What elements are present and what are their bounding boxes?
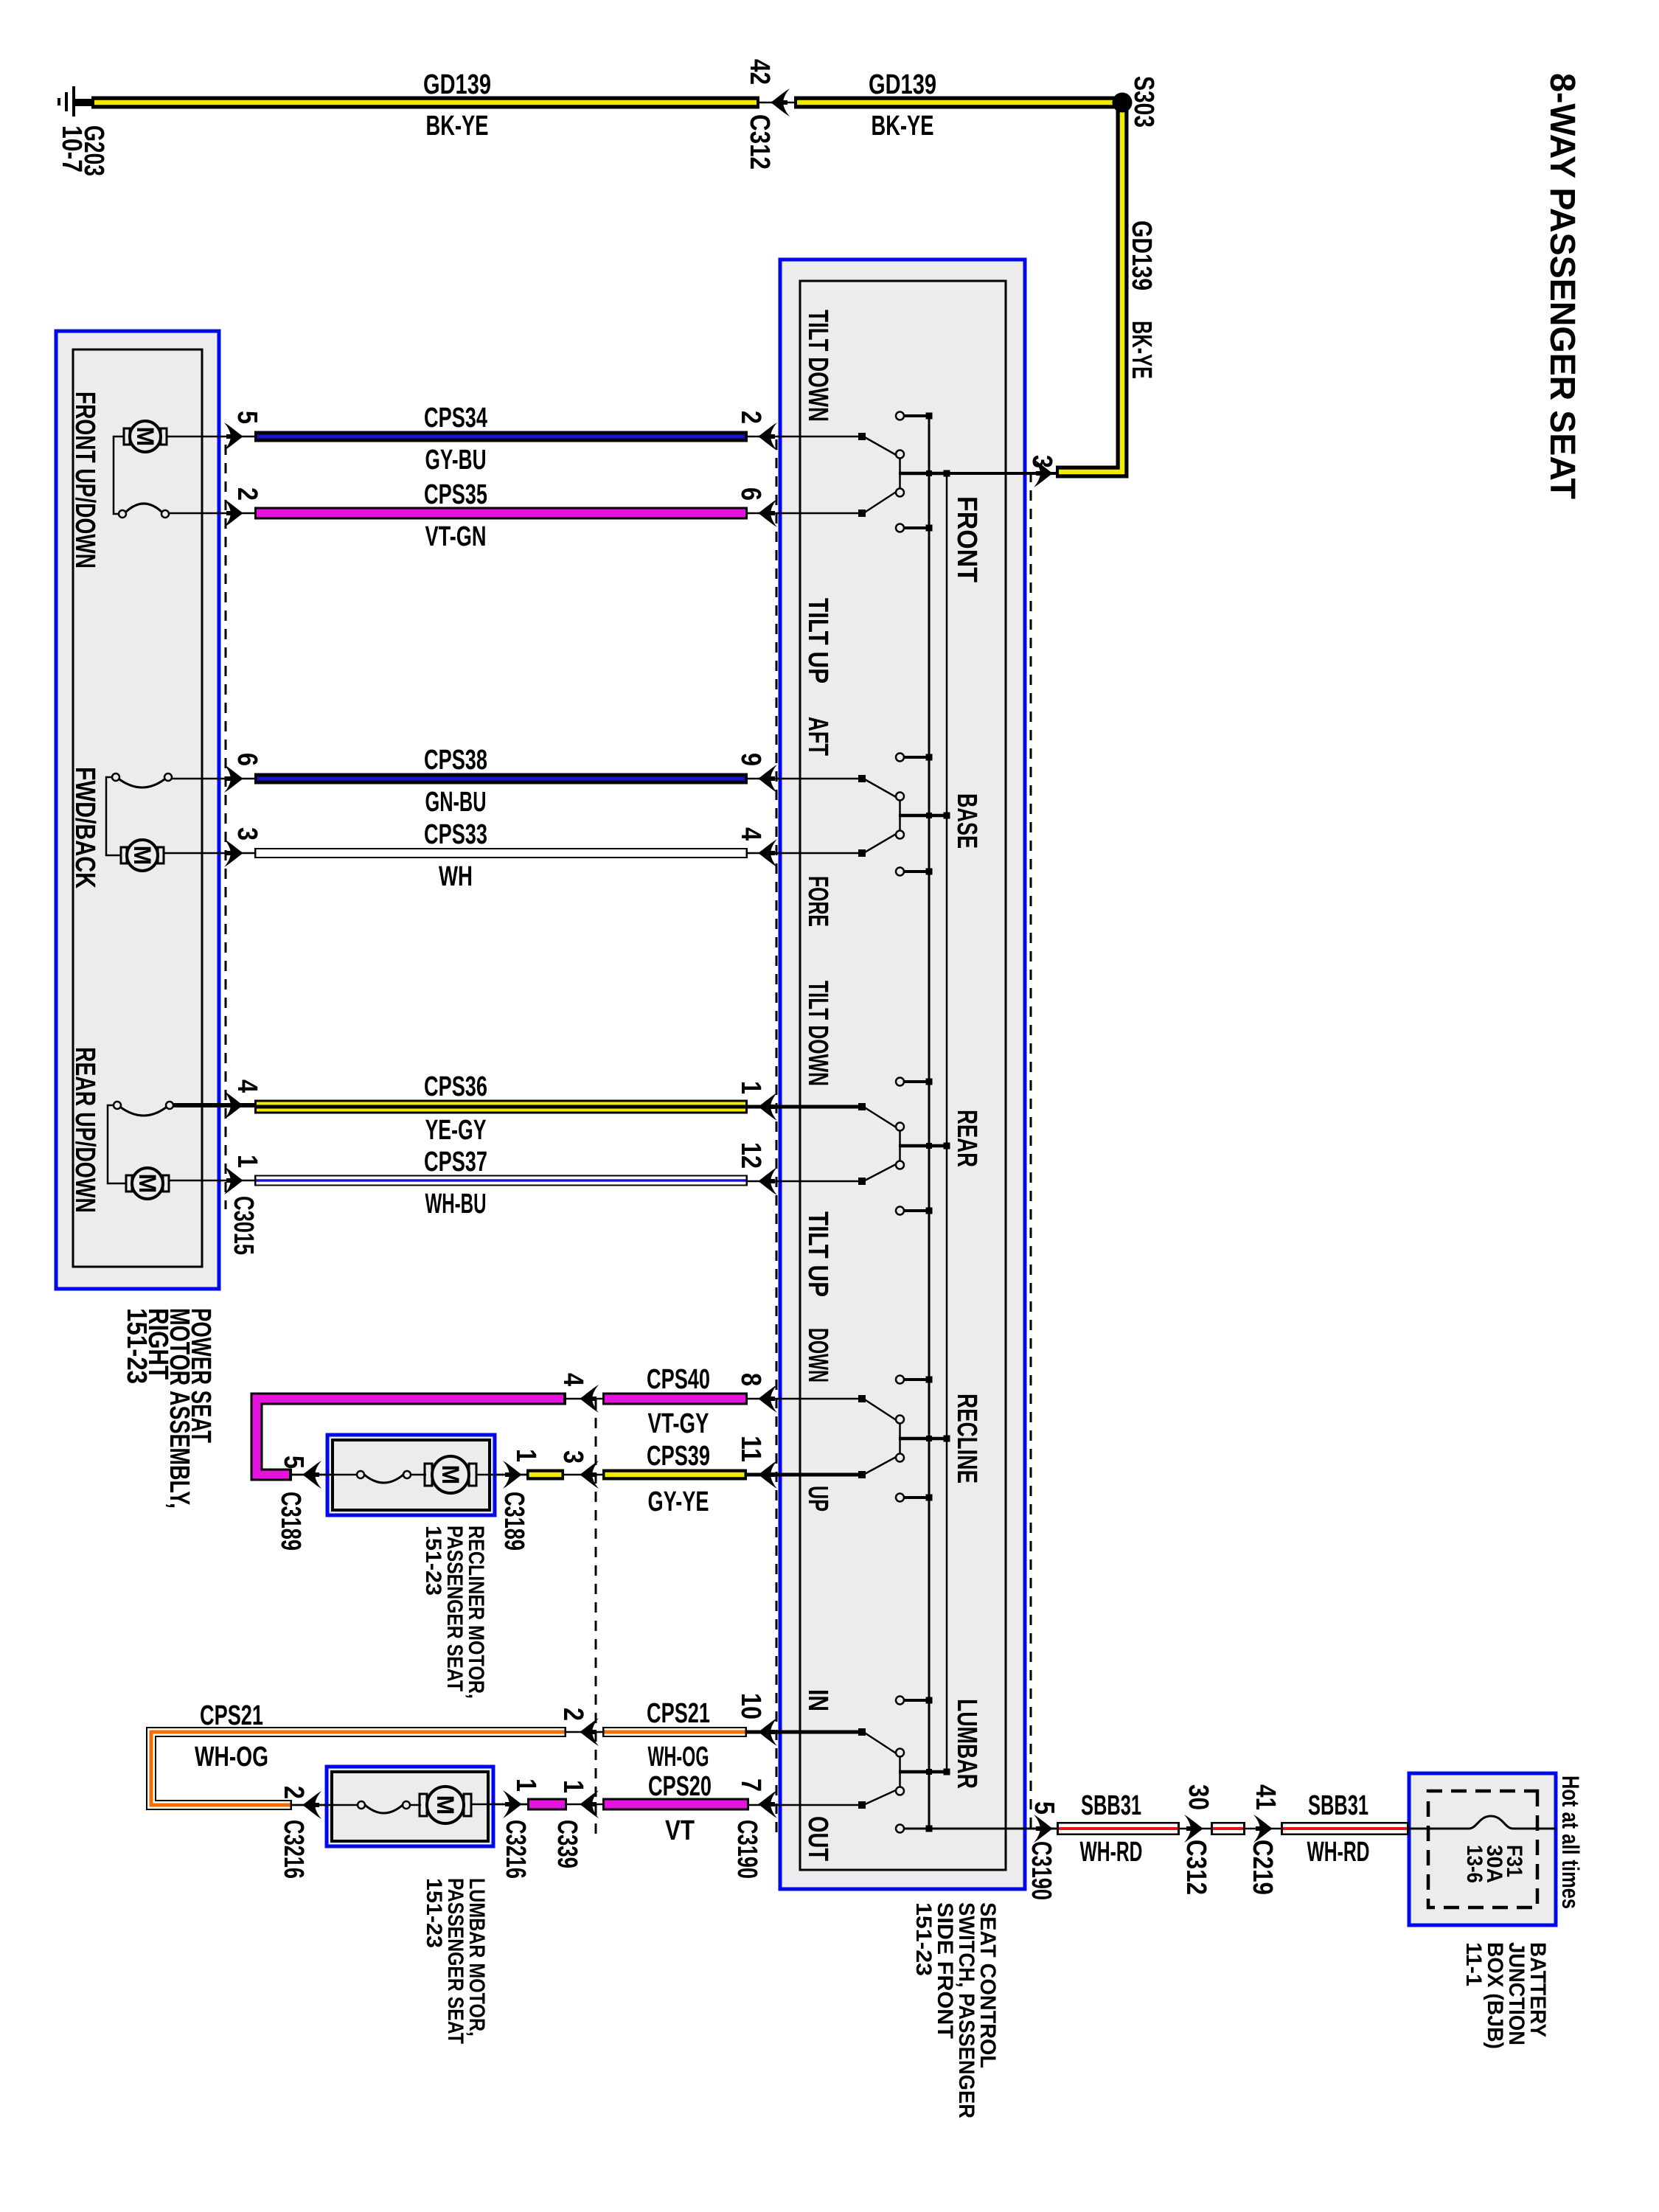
motor assembly connector C3015 pin 4 arrow bbox=[224, 1091, 243, 1119]
svg-text:C3190: C3190 bbox=[731, 1820, 762, 1879]
svg-text:2: 2 bbox=[557, 1708, 588, 1721]
connector C3190 dashed line left side bbox=[776, 439, 778, 1835]
label SWITCH, PASSENGER bbox=[954, 1902, 978, 2118]
svg-text:M: M bbox=[129, 846, 156, 866]
label 151-23 motor assembly bbox=[121, 1308, 152, 1384]
svg-text:CPS35: CPS35 bbox=[424, 479, 487, 510]
wire CPS21 WH-OG upper segment bbox=[602, 1727, 747, 1737]
label RIGHT bbox=[142, 1308, 173, 1380]
svg-text:1: 1 bbox=[510, 1449, 541, 1462]
svg-text:SEAT CONTROL: SEAT CONTROL bbox=[975, 1902, 1000, 2068]
fuse box dashed border bbox=[1428, 1791, 1537, 1907]
svg-text:SWITCH, PASSENGER: SWITCH, PASSENGER bbox=[954, 1902, 978, 2118]
label GN-BU bbox=[425, 787, 487, 818]
label C312 lower bbox=[1180, 1840, 1211, 1895]
label WH-OG lower bbox=[195, 1742, 268, 1773]
fuse F31 bbox=[1409, 1816, 1556, 1829]
label TILT DOWN pin1 bbox=[802, 981, 833, 1086]
power seat motor assembly outer box bbox=[56, 331, 219, 1289]
svg-text:TILT UP: TILT UP bbox=[802, 598, 833, 684]
svg-text:YE-GY: YE-GY bbox=[425, 1115, 487, 1146]
svg-text:12: 12 bbox=[735, 1142, 766, 1169]
svg-text:1: 1 bbox=[232, 1155, 262, 1168]
seat control switch inner box bbox=[800, 281, 1006, 1870]
label CPS20 bbox=[648, 1771, 712, 1802]
wire SBB31 WH-RD upper segment bbox=[1281, 1822, 1409, 1835]
fwd/back motor M bbox=[121, 840, 254, 871]
label C3189 pin 5 bbox=[278, 1455, 309, 1469]
motor assembly connector C3015 pin 6 arrow bbox=[224, 765, 243, 793]
label BK-YE at top wire bbox=[1126, 321, 1157, 379]
switch section BASE bbox=[745, 754, 950, 876]
svg-text:CPS21: CPS21 bbox=[200, 1700, 263, 1731]
label C3189 pin 1 bbox=[510, 1449, 541, 1462]
svg-text:TILT DOWN: TILT DOWN bbox=[802, 310, 833, 422]
lumbar motor M bbox=[420, 1787, 527, 1823]
title 8-WAY PASSENGER SEAT bbox=[1543, 73, 1582, 499]
label 42 bbox=[744, 59, 775, 85]
recliner connector C3189 pin 1 arrow bbox=[479, 1461, 526, 1489]
svg-text:11-1: 11-1 bbox=[1461, 1942, 1486, 1986]
label S303 bbox=[1128, 76, 1159, 128]
svg-text:10-7: 10-7 bbox=[56, 125, 87, 173]
label C339 pin 4 bbox=[557, 1373, 588, 1386]
svg-text:5: 5 bbox=[278, 1455, 309, 1469]
svg-text:DOWN: DOWN bbox=[802, 1328, 833, 1382]
svg-text:BK-YE: BK-YE bbox=[426, 111, 489, 142]
label pin 8 bbox=[735, 1373, 766, 1386]
label GD139 on trunk upper bbox=[869, 69, 936, 100]
wire GD139 BK-YE trunk lower segment to ground bbox=[91, 97, 759, 109]
label OUT pin7 bbox=[802, 1816, 833, 1861]
label GD139 on trunk lower bbox=[423, 69, 491, 100]
svg-text:BASE: BASE bbox=[951, 793, 982, 849]
label LUMBAR MOTOR, bbox=[465, 1878, 489, 2037]
label SBB31 upper bbox=[1308, 1790, 1368, 1821]
lumbar connector C3216 pin 1 arrow bbox=[479, 1790, 527, 1818]
svg-text:13-6: 13-6 bbox=[1462, 1845, 1486, 1883]
label pin 1 bbox=[735, 1081, 766, 1094]
wire CPS38 GN-BU bbox=[254, 773, 748, 785]
label C339 pin 2 bbox=[557, 1708, 588, 1721]
label SIDE FRONT bbox=[933, 1902, 957, 2039]
label C339 bbox=[552, 1820, 582, 1868]
label WH-RD upper bbox=[1307, 1837, 1370, 1868]
svg-text:M: M bbox=[437, 1465, 464, 1485]
switch connector C3190 pin 6 arrow bbox=[758, 499, 777, 527]
svg-text:C3216: C3216 bbox=[278, 1820, 309, 1879]
svg-text:TILT DOWN: TILT DOWN bbox=[802, 981, 833, 1086]
label PASSENGER SEAT lumbar bbox=[443, 1878, 467, 2044]
label pin 10 bbox=[735, 1693, 766, 1719]
label WH bbox=[439, 861, 473, 892]
svg-text:FRONT: FRONT bbox=[951, 496, 982, 582]
label VT bbox=[665, 1815, 695, 1846]
svg-text:M: M bbox=[432, 1795, 459, 1815]
svg-text:JUNCTION: JUNCTION bbox=[1504, 1942, 1528, 2045]
label WH-BU bbox=[425, 1189, 487, 1220]
label VT-GN bbox=[425, 521, 487, 552]
label pin 9 bbox=[735, 753, 766, 766]
label WH-RD lower bbox=[1080, 1837, 1143, 1868]
label GY-BU bbox=[425, 445, 487, 476]
label POWER SEAT bbox=[185, 1308, 216, 1443]
label CPS38 bbox=[424, 745, 487, 776]
switch section REAR bbox=[745, 1078, 950, 1215]
label CPS34 bbox=[424, 403, 487, 434]
svg-text:AFT: AFT bbox=[802, 717, 833, 756]
label TILT UP pin12 bbox=[802, 1211, 833, 1297]
fwd/back reversing arc bbox=[112, 773, 254, 787]
label FWD/BACK bbox=[69, 767, 100, 888]
lumbar connector C3216 pin 2 arrow bbox=[292, 1791, 327, 1819]
switch section FRONT bbox=[745, 412, 950, 532]
svg-text:BK-YE: BK-YE bbox=[1126, 321, 1157, 379]
label C3190 right bbox=[1026, 1841, 1057, 1900]
label TILT DOWN pin2 bbox=[802, 310, 833, 422]
svg-text:UP: UP bbox=[802, 1486, 833, 1512]
svg-text:IN: IN bbox=[802, 1689, 833, 1711]
svg-text:LUMBAR MOTOR,: LUMBAR MOTOR, bbox=[465, 1878, 489, 2037]
motor assembly connector C3015 pin 2 arrow bbox=[224, 499, 243, 527]
connector C3015 dashed line bbox=[225, 445, 227, 1209]
rear up/down link wire bbox=[108, 1105, 126, 1183]
svg-text:CPS38: CPS38 bbox=[424, 745, 487, 776]
svg-text:FWD/BACK: FWD/BACK bbox=[69, 767, 100, 888]
connector C3190 dashed line right side bbox=[1030, 472, 1032, 1829]
svg-text:C3189: C3189 bbox=[498, 1492, 529, 1551]
svg-text:BK-YE: BK-YE bbox=[872, 111, 934, 142]
svg-text:8-WAY PASSENGER SEAT: 8-WAY PASSENGER SEAT bbox=[1543, 73, 1582, 499]
svg-text:Hot at all times: Hot at all times bbox=[1557, 1775, 1584, 1909]
label C339 pin 1 bbox=[557, 1780, 588, 1793]
svg-text:1: 1 bbox=[510, 1778, 541, 1792]
label F31 bbox=[1502, 1845, 1526, 1877]
svg-text:41: 41 bbox=[1250, 1784, 1281, 1810]
label YE-GY bbox=[425, 1115, 487, 1146]
svg-text:RECLINE: RECLINE bbox=[951, 1394, 982, 1484]
svg-text:C3216: C3216 bbox=[500, 1820, 531, 1879]
svg-text:C339: C339 bbox=[552, 1820, 582, 1868]
svg-text:C312: C312 bbox=[1180, 1840, 1211, 1895]
label BASE bbox=[951, 793, 982, 849]
switch connector C3190 pin 11 arrow bbox=[758, 1461, 777, 1489]
label 151-23 lumbar bbox=[422, 1878, 446, 1948]
connector C312 pin 42 on trunk bbox=[759, 88, 794, 116]
label BOX (BJB) bbox=[1483, 1942, 1507, 2049]
svg-text:8: 8 bbox=[735, 1373, 766, 1386]
label GD139 at top wire bbox=[1126, 220, 1157, 291]
svg-text:C312: C312 bbox=[744, 114, 775, 170]
battery junction box bbox=[1409, 1773, 1556, 1925]
wire CPS20 VT stub bbox=[527, 1798, 567, 1811]
switch connector C3190 pin 1 arrow bbox=[758, 1093, 777, 1121]
svg-text:GY-BU: GY-BU bbox=[425, 445, 487, 476]
svg-text:SIDE FRONT: SIDE FRONT bbox=[933, 1902, 957, 2039]
svg-text:WH-RD: WH-RD bbox=[1307, 1837, 1370, 1868]
wire CPS40 VT-GY lower U segment bbox=[257, 1399, 566, 1475]
label UP pin11 bbox=[802, 1486, 833, 1512]
svg-text:3: 3 bbox=[232, 827, 262, 841]
label 151-23 recliner bbox=[421, 1526, 445, 1596]
power seat motor assembly inner box bbox=[73, 349, 202, 1267]
label pin 7 bbox=[735, 1778, 766, 1792]
svg-text:LUMBAR: LUMBAR bbox=[951, 1699, 982, 1789]
svg-text:GN-BU: GN-BU bbox=[425, 787, 487, 818]
fwd/back link wire bbox=[106, 777, 121, 855]
label TILT UP pin6 bbox=[802, 598, 833, 684]
svg-text:151-23: 151-23 bbox=[421, 1526, 445, 1596]
svg-text:GD139: GD139 bbox=[423, 69, 491, 100]
wire CPS34 GY-BU bbox=[254, 431, 748, 442]
label JUNCTION bbox=[1504, 1942, 1528, 2045]
label C3015 pin 4 bbox=[232, 1079, 262, 1093]
switch pin 3 lead and arrow bbox=[900, 459, 1056, 487]
label 151-23 switch bbox=[911, 1902, 936, 1976]
recliner motor reversing arc bbox=[292, 1471, 426, 1483]
recliner motor M bbox=[425, 1456, 526, 1493]
wire CPS21 WH-OG lower U segment bbox=[151, 1732, 566, 1805]
recliner motor box bbox=[327, 1435, 495, 1515]
switch section LUMBAR bbox=[745, 1697, 950, 1833]
svg-text:1: 1 bbox=[735, 1081, 766, 1094]
switch connector C3190 pin 9 arrow bbox=[758, 765, 777, 793]
svg-text:3: 3 bbox=[557, 1450, 588, 1464]
svg-text:VT-GY: VT-GY bbox=[648, 1408, 709, 1439]
label pin 12 bbox=[735, 1142, 766, 1169]
label RECLINER MOTOR, bbox=[464, 1526, 488, 1699]
rear up/down reversing arc bbox=[114, 1102, 254, 1116]
label Hot at all times bbox=[1557, 1775, 1584, 1909]
svg-text:GD139: GD139 bbox=[1126, 220, 1157, 291]
label C219 bbox=[1247, 1840, 1278, 1895]
svg-text:4: 4 bbox=[232, 1079, 262, 1093]
svg-text:151-23: 151-23 bbox=[422, 1878, 446, 1948]
svg-text:WH-OG: WH-OG bbox=[195, 1742, 268, 1773]
svg-text:CPS33: CPS33 bbox=[424, 819, 487, 850]
label WH-OG upper bbox=[648, 1742, 709, 1773]
svg-text:SBB31: SBB31 bbox=[1081, 1790, 1141, 1821]
wire GD139 BK-YE trunk upper segment with S303 bend to switch pin 3 bbox=[794, 102, 1122, 472]
svg-text:4: 4 bbox=[557, 1373, 588, 1386]
svg-text:5: 5 bbox=[232, 411, 262, 424]
svg-text:GY-YE: GY-YE bbox=[648, 1486, 709, 1517]
label AFT pin9 bbox=[802, 717, 833, 756]
svg-text:2: 2 bbox=[278, 1786, 309, 1799]
svg-text:M: M bbox=[134, 1174, 161, 1194]
label C312 bbox=[744, 114, 775, 170]
label DOWN pin8 bbox=[802, 1328, 833, 1382]
ground G203 symbol bbox=[58, 86, 93, 116]
label IN pin10 bbox=[802, 1689, 833, 1711]
label 3 bbox=[1026, 455, 1057, 468]
lumbar motor reversing arc bbox=[292, 1801, 421, 1813]
wire CPS39 GY-YE stub bbox=[526, 1470, 564, 1481]
label PASSENGER SEAT recliner bbox=[442, 1526, 467, 1691]
svg-text:REAR UP/DOWN: REAR UP/DOWN bbox=[69, 1047, 100, 1213]
label 30A bbox=[1482, 1845, 1506, 1883]
label C3189 upper bbox=[498, 1492, 529, 1551]
label C3216 lower bbox=[278, 1820, 309, 1879]
svg-text:TILT UP: TILT UP bbox=[802, 1211, 833, 1297]
label BK-YE on trunk lower bbox=[426, 111, 489, 142]
label CPS39 bbox=[647, 1441, 710, 1472]
svg-text:9: 9 bbox=[735, 753, 766, 766]
connector C219 pin 41 bbox=[1245, 1815, 1281, 1843]
svg-text:WH-OG: WH-OG bbox=[648, 1742, 709, 1773]
label BATTERY bbox=[1526, 1942, 1550, 2037]
svg-text:WH-BU: WH-BU bbox=[425, 1189, 487, 1220]
svg-text:OUT: OUT bbox=[802, 1816, 833, 1861]
motor assembly connector C3015 pin 3 arrow bbox=[224, 839, 243, 867]
label SBB31 lower bbox=[1081, 1790, 1141, 1821]
connector C339 dashed line bbox=[595, 1399, 597, 1835]
label 30 bbox=[1183, 1784, 1214, 1810]
svg-text:SBB31: SBB31 bbox=[1308, 1790, 1368, 1821]
front up/down reversing arc bbox=[119, 504, 254, 518]
label MOTOR ASSEMBLY, bbox=[164, 1308, 195, 1509]
label C3216 pin 2 bbox=[278, 1786, 309, 1799]
svg-text:1: 1 bbox=[557, 1780, 588, 1793]
wire CPS36 YE-GY bbox=[254, 1100, 748, 1114]
label pin 6 bbox=[735, 487, 766, 501]
wire SBB31 WH-RD lower segment bbox=[1057, 1822, 1180, 1835]
svg-text:C3190: C3190 bbox=[1026, 1841, 1057, 1900]
svg-text:REAR: REAR bbox=[951, 1110, 982, 1167]
svg-text:RECLINER MOTOR,: RECLINER MOTOR, bbox=[464, 1526, 488, 1699]
label VT-GY bbox=[648, 1408, 709, 1439]
label FRONT UP/DOWN bbox=[69, 392, 100, 568]
wire CPS40 VT-GY upper segment bbox=[602, 1393, 748, 1405]
svg-text:6: 6 bbox=[735, 487, 766, 501]
switch connector C3190 pin 10 arrow bbox=[758, 1718, 777, 1746]
motor assembly connector C3015 pin 1 arrow bbox=[224, 1166, 243, 1194]
svg-text:FRONT UP/DOWN: FRONT UP/DOWN bbox=[69, 392, 100, 568]
svg-text:C219: C219 bbox=[1247, 1840, 1278, 1895]
label CPS21 lower bbox=[200, 1700, 263, 1731]
motor assembly connector C3015 pin 5 arrow bbox=[224, 422, 243, 451]
svg-text:10: 10 bbox=[735, 1693, 766, 1719]
front up/down motor M bbox=[124, 421, 254, 452]
label pin 4 bbox=[735, 827, 766, 841]
label C3015 bbox=[228, 1196, 259, 1255]
label C3015 pin 6 bbox=[232, 753, 262, 766]
svg-text:S303: S303 bbox=[1128, 76, 1159, 128]
svg-text:CPS21: CPS21 bbox=[647, 1698, 710, 1729]
switch connector C3190 pin 8 arrow bbox=[758, 1385, 777, 1413]
label REAR UP/DOWN bbox=[69, 1047, 100, 1213]
svg-text:3: 3 bbox=[1026, 455, 1057, 468]
wire CPS37 WH-BU bbox=[254, 1175, 748, 1186]
label FORE pin4 bbox=[802, 876, 833, 927]
svg-text:VT-GN: VT-GN bbox=[425, 521, 487, 552]
svg-text:CPS39: CPS39 bbox=[647, 1441, 710, 1472]
svg-text:VT: VT bbox=[665, 1815, 695, 1846]
switch bus line B (commons rail) bbox=[946, 473, 948, 1772]
switch connector C3190 pin 2 arrow bbox=[758, 422, 777, 451]
switch section RECLINE bbox=[745, 1376, 950, 1502]
label C3015 pin 5 bbox=[232, 411, 262, 424]
label C3015 pin 1 bbox=[232, 1155, 262, 1168]
label 11-1 bbox=[1461, 1942, 1486, 1986]
label CPS36 bbox=[424, 1071, 487, 1102]
svg-text:CPS36: CPS36 bbox=[424, 1071, 487, 1102]
label C3189 lower bbox=[275, 1492, 306, 1551]
svg-text:C3015: C3015 bbox=[228, 1196, 259, 1255]
svg-text:WH-RD: WH-RD bbox=[1080, 1837, 1143, 1868]
wire CPS35 VT-GN bbox=[254, 507, 748, 520]
svg-text:PASSENGER SEAT: PASSENGER SEAT bbox=[442, 1526, 467, 1691]
label SEAT CONTROL bbox=[975, 1902, 1000, 2068]
label RECLINE bbox=[951, 1394, 982, 1484]
label C3015 pin 2 bbox=[232, 487, 262, 501]
svg-text:151-23: 151-23 bbox=[911, 1902, 936, 1976]
seat control switch outer box bbox=[780, 260, 1025, 1889]
recliner connector C3189 pin 5 arrow bbox=[292, 1461, 327, 1489]
connector C339 pin 1 arrow bbox=[567, 1790, 602, 1818]
label C3015 pin 3 bbox=[232, 827, 262, 841]
svg-text:PASSENGER SEAT: PASSENGER SEAT bbox=[443, 1878, 467, 2044]
label 5 switch bbox=[1029, 1801, 1060, 1815]
connector C339 pin 3 arrow bbox=[564, 1461, 602, 1489]
label C3216 upper bbox=[500, 1820, 531, 1879]
connector C339 pin 2 arrow bbox=[566, 1718, 602, 1746]
switch bus line A (contacts rail) bbox=[928, 416, 931, 1829]
label 41 bbox=[1250, 1784, 1281, 1810]
label FRONT bbox=[951, 496, 982, 582]
front up/down link wire bbox=[114, 437, 124, 514]
splice S303 bbox=[1113, 93, 1133, 113]
label REAR bbox=[951, 1110, 982, 1167]
label LUMBAR bbox=[951, 1699, 982, 1789]
svg-text:2: 2 bbox=[735, 411, 766, 424]
label pin 2 bbox=[735, 411, 766, 424]
label G203 bbox=[78, 125, 109, 176]
wire CPS20 VT upper segment bbox=[602, 1798, 749, 1811]
label GY-YE bbox=[648, 1486, 709, 1517]
svg-text:11: 11 bbox=[735, 1436, 766, 1462]
switch connector C3190 pin 4 arrow bbox=[758, 839, 777, 867]
svg-text:2: 2 bbox=[232, 487, 262, 501]
svg-text:5: 5 bbox=[1029, 1801, 1060, 1815]
switch pin 5 feed line and arrow bbox=[904, 1815, 1057, 1843]
svg-text:C3189: C3189 bbox=[275, 1492, 306, 1551]
label CPS33 bbox=[424, 819, 487, 850]
rear up/down motor M bbox=[126, 1168, 254, 1199]
connector C312 pin 30 bbox=[1180, 1815, 1211, 1843]
switch connector C3190 pin 12 arrow bbox=[758, 1167, 777, 1195]
label CPS40 bbox=[647, 1364, 710, 1395]
label C3216 pin 1 bbox=[510, 1778, 541, 1792]
svg-text:BOX (BJB): BOX (BJB) bbox=[1483, 1942, 1507, 2049]
svg-text:4: 4 bbox=[735, 827, 766, 841]
label CPS37 bbox=[424, 1147, 487, 1178]
svg-text:BATTERY: BATTERY bbox=[1526, 1942, 1550, 2037]
svg-text:42: 42 bbox=[744, 59, 775, 85]
svg-text:WH: WH bbox=[439, 861, 473, 892]
svg-text:FORE: FORE bbox=[802, 876, 833, 927]
svg-text:7: 7 bbox=[735, 1778, 766, 1792]
label pin 11 bbox=[735, 1436, 766, 1462]
svg-text:CPS37: CPS37 bbox=[424, 1147, 487, 1178]
label 13-6 bbox=[1462, 1845, 1486, 1883]
wire SBB31 WH-RD middle stub bbox=[1211, 1822, 1245, 1835]
label BK-YE on trunk upper bbox=[872, 111, 934, 142]
svg-text:30: 30 bbox=[1183, 1784, 1214, 1810]
svg-text:GD139: GD139 bbox=[869, 69, 936, 100]
label CPS35 bbox=[424, 479, 487, 510]
lumbar motor box bbox=[327, 1767, 493, 1846]
